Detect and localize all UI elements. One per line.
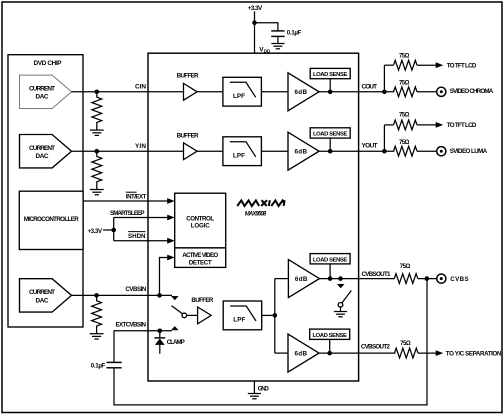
svg-text:LOAD SENSE: LOAD SENSE [312,333,347,339]
svg-text:LOAD SENSE: LOAD SENSE [313,257,348,263]
svg-text:LPF: LPF [233,93,245,100]
svg-text:SVIDEO LUMA: SVIDEO LUMA [450,148,488,155]
svg-text:6dB: 6dB [295,351,308,358]
svg-text:75Ω: 75Ω [399,140,410,146]
svg-text:TO TFT LCD: TO TFT LCD [447,63,477,70]
svg-text:YOUT: YOUT [362,143,378,150]
svg-text:CLAMP: CLAMP [167,339,185,346]
svg-text:BUFFER: BUFFER [191,297,214,304]
svg-text:CVBSOUT2: CVBSOUT2 [361,344,391,351]
svg-text:LOAD SENSE: LOAD SENSE [313,132,348,138]
svg-text:CIN: CIN [135,84,146,91]
svg-text:CURRENT: CURRENT [29,289,55,296]
svg-text:TO TFT LCD: TO TFT LCD [447,122,477,129]
svg-text:GND: GND [258,385,270,392]
svg-text:75Ω: 75Ω [399,80,410,86]
svg-text:75Ω: 75Ω [399,112,410,118]
svg-text:DAC: DAC [36,94,49,101]
svg-text:CVBSIN: CVBSIN [125,286,147,293]
svg-text:75Ω: 75Ω [400,341,411,347]
svg-text:LPF: LPF [233,317,245,324]
svg-text:75Ω: 75Ω [399,54,410,60]
svg-text:DAC: DAC [36,153,49,160]
svg-text:LOGIC: LOGIC [191,223,211,230]
svg-text:6dB: 6dB [295,276,308,283]
svg-text:CVBS: CVBS [450,276,469,283]
svg-text:LOAD SENSE: LOAD SENSE [313,72,348,78]
svg-text:75Ω: 75Ω [400,264,411,270]
svg-text:DD: DD [264,49,271,54]
svg-text:LPF: LPF [233,152,245,159]
svg-text:0.1µF: 0.1µF [287,29,302,36]
svg-text:BUFFER: BUFFER [177,133,200,140]
svg-text:6dB: 6dB [295,89,308,96]
svg-text:CURRENT: CURRENT [29,86,55,93]
svg-text:INT/EXT: INT/EXT [126,194,147,201]
svg-text:+3.3V: +3.3V [88,228,103,235]
svg-text:DAC: DAC [36,297,49,304]
svg-text:SMARTSLEEP: SMARTSLEEP [110,210,145,217]
svg-text:SVIDEO CHROMA: SVIDEO CHROMA [450,88,494,95]
svg-text:CURRENT: CURRENT [29,145,55,152]
svg-text:CVBSOUT1: CVBSOUT1 [362,271,392,278]
svg-text:DVD CHIP: DVD CHIP [34,60,63,67]
svg-text:6dB: 6dB [295,149,308,156]
svg-text:BUFFER: BUFFER [177,73,200,80]
svg-text:EXTCVBSIN: EXTCVBSIN [116,322,147,329]
svg-text:ACTIVE VIDEO: ACTIVE VIDEO [182,252,218,259]
svg-text:TO Y/C SEPARATION: TO Y/C SEPARATION [446,351,502,358]
svg-text:+3.3V: +3.3V [248,5,263,12]
svg-text:SHDN: SHDN [128,233,146,240]
svg-text:COUT: COUT [362,83,378,90]
svg-text:YIN: YIN [135,143,146,150]
svg-text:0.1µF: 0.1µF [91,362,106,369]
svg-text:MICROCONTROLLER: MICROCONTROLLER [24,216,80,223]
svg-text:DETECT: DETECT [189,260,212,267]
svg-text:MAX9508: MAX9508 [245,211,267,217]
